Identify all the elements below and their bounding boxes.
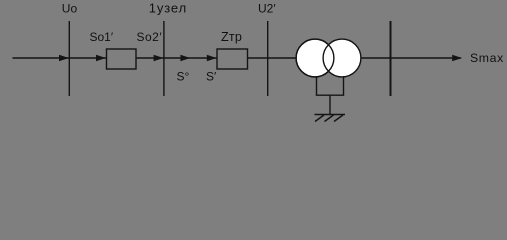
svg-text:Zтр: Zтр [221,30,242,44]
svg-text:S°: S° [177,70,190,84]
wire transformer right lead down [343,76,345,95]
ground [315,115,346,122]
svg-text:1узел: 1узел [149,1,187,16]
svg-text:U2′: U2′ [258,2,276,16]
bus output [390,21,392,96]
arrow node S [180,55,190,62]
svg-text:Uo: Uo [62,2,78,16]
svg-text:So2′: So2′ [137,30,163,44]
arrow into box So [96,55,106,62]
wire neutral connector [316,94,344,96]
svg-text:S′: S′ [206,70,217,84]
svg-text:So1′: So1′ [90,30,114,44]
resistor box So1'/So2' [107,49,137,69]
arrow into box Ztr [207,55,217,62]
bus U2' [267,21,269,96]
arrow output Smax [452,55,462,62]
bus Uo [68,21,70,96]
bus 1uzel [163,21,165,96]
wire neutral stem [329,95,331,114]
arrow into bus 1uzel [154,55,164,62]
wire transformer left lead down [316,76,318,95]
transformer T1 winding 1 outline restore [296,39,334,77]
transformer T1 winding 2 [323,39,361,77]
arrow into bus Uo [59,55,69,62]
svg-text:Smax: Smax [470,51,504,65]
transformer T1 winding 1 [296,39,334,77]
resistor box Ztr [217,49,248,69]
wire main feeder line [13,57,462,59]
